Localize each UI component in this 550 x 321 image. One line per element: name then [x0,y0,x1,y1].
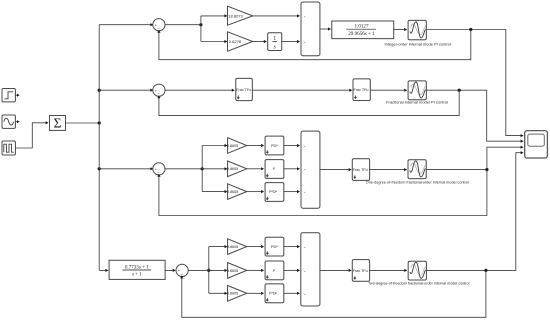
feedback wire row4 [182,270,486,317]
wire I3 to add3 [284,168,297,170]
gain block 0.8605 (row4 b) [227,263,247,279]
add block row1 [301,2,320,56]
svg-text:18.8073: 18.8073 [228,13,243,18]
fractional PID block row3 (P lambda D mu) [265,183,284,202]
wire PD4 to add4 [284,246,297,248]
svg-text:0.8605: 0.8605 [227,190,238,194]
sum junction circle S2 [153,84,165,96]
transfer function block (0.7733s+1)/(s+1) [109,260,165,279]
fractional transfer function block 4 (Frac TFu) [352,260,369,282]
svg-text:+: + [304,144,306,148]
wire integrator to add1 [282,41,298,43]
svg-text:−: − [157,26,160,31]
svg-text:0.8605: 0.8605 [227,292,238,296]
sum junction circle S3 [153,163,165,175]
wire PID3 to add3 [284,191,297,193]
wire to gain4a [209,246,225,248]
svg-text:+: + [304,167,306,171]
wire sum block to bus [66,122,100,124]
wire to gain4c [209,292,225,294]
gain block 0.6276 [228,32,253,51]
svg-text:Frac TFu: Frac TFu [353,168,368,172]
svg-text:+: + [304,14,306,18]
wire PID4 to add4 [284,292,297,294]
wire fracTF4 to display4 [370,269,405,271]
svg-text:+: + [304,292,306,296]
wire TF1 to display1 [394,29,405,31]
svg-text:Frac TFu: Frac TFu [353,269,368,273]
svg-text:29.9656s + 1: 29.9656s + 1 [348,31,375,37]
wire display2 to scope [426,90,521,141]
add block row3 [301,131,320,208]
wire pulse generator to sum block [15,123,45,148]
wire gain4c to PID block [247,292,262,294]
fractional PD block row4 (PDu) [265,237,284,256]
wire TF4 to sum4 [165,269,173,271]
wire gain3c to PID block [247,191,262,193]
wire add1 to TF1 [320,28,328,30]
svg-text:0.8605: 0.8605 [227,167,238,171]
wire gain4a to PD block [247,246,262,248]
gain block 18.8073 [228,6,253,25]
node row4 output [484,269,487,272]
wire to gain1 [201,15,225,17]
wire add4 to fracTF4 [320,269,349,271]
wire display3 to scope [426,147,521,169]
wire branch vertical row1 [200,16,202,42]
junction bus/row3 [98,167,101,170]
wire bus to sum3 [99,168,152,170]
node row2 output [458,89,461,92]
wire sum1 to branch node [165,24,201,26]
wire bus to sum1 [99,24,152,26]
fractional transfer function block 2b (Frac TFu) [353,79,370,101]
svg-text:Frac TFu: Frac TFu [354,88,369,92]
feedback wire row1 [159,30,471,60]
svg-text:Integer-order internal mode PI: Integer-order internal mode PI control [384,41,451,46]
wire add3 to fracTF3 [320,169,349,171]
pulse generator source block [2,141,15,155]
signal display block row4 [408,261,426,280]
svg-text:−: − [157,170,160,175]
gain block 0.8605 (row3 b) [227,161,247,177]
signal display block row1 [408,20,426,39]
svg-text:Frac TFu: Frac TFu [236,88,251,92]
fractional PID block row4 (P lambda D mu) [265,284,284,303]
fractional transfer function block 2a (Frac TFu) [236,78,253,100]
svg-text:0.8605: 0.8605 [227,245,238,249]
node row1 branch [199,23,202,26]
svg-text:s + 1: s + 1 [132,272,142,278]
svg-text:+: + [304,190,306,194]
wire I4 to add4 [284,269,297,271]
sum junction circle S4 [176,264,188,276]
wire display1 to scope (via right side) [426,30,521,136]
junction bus/sigma [98,121,101,124]
fractional integrator block row3 (I lambda) [265,160,284,179]
svg-text:−: − [157,91,160,96]
fractional transfer function block 3 (Frac TFu) [352,159,369,181]
add block row4 [301,233,320,306]
signal display block row2 [408,81,426,100]
svg-text:0.7733s + 1: 0.7733s + 1 [125,264,149,270]
svg-text:One-degree-of-freedom fraction: One-degree-of-freedom fractional-order i… [366,181,469,185]
node row3 output [485,168,488,171]
svg-text:Σ: Σ [54,116,62,131]
svg-text:−: − [181,271,184,276]
node row3 branch [201,167,204,170]
junction bus/row2 [98,89,101,92]
wire bus to sum2 [99,89,152,91]
svg-text:+: + [304,269,306,273]
transfer function block 1.0127/(29.9656s+1) [332,21,394,39]
wire sum4 to branch node [188,269,209,271]
svg-text:+: + [304,40,306,44]
wire sum3 to branch node [165,168,202,170]
signal display block row3 [408,160,426,179]
wire gain1 to add1 [253,15,298,17]
wire gain3b to I block [247,168,262,170]
fractional integrator block row4 (I lambda) [265,261,284,280]
wire to gain3b [202,168,225,170]
wire to gain2 [201,41,225,43]
sum junction circle S1 [153,19,165,31]
feedback wire row3 [159,170,487,216]
wire to gain4b [209,269,225,271]
wire fracTF2a to fracTF2b [252,89,349,91]
wire branch vertical row4 [208,247,210,294]
svg-text:Two-degree-of-freedom fraction: Two-degree-of-freedom fractional-order i… [368,282,470,286]
gain block 0.8605 (row3 c) [227,184,247,200]
main vertical bus wire [98,25,100,271]
gain block 0.8605 (row4 c) [227,286,247,302]
wire fracTF2b to display2 [370,89,404,91]
svg-text:1.0127: 1.0127 [354,24,368,30]
wire display4 to scope [426,153,520,271]
sine wave source block [2,115,20,128]
step source block [2,89,20,102]
feedback wire row2 [159,90,459,115]
wire sum2 to fractional TF 2a [165,89,232,91]
wire branch vertical row3 [201,146,203,192]
wire to gain3c [202,191,225,193]
svg-text:0.8605: 0.8605 [227,144,238,148]
wire to gain3a [202,145,225,147]
sum block U_sum (sigma) [50,116,66,131]
svg-text:1: 1 [273,36,276,42]
svg-text:0.8605: 0.8605 [227,269,238,273]
scope block [525,131,548,158]
node row4 branch [207,269,210,272]
wire gain2 to integrator [253,41,264,43]
wire gain4b to I block [247,269,262,271]
fractional PD block row3 (PDu) [265,136,284,155]
integrator block 1/s [268,33,282,51]
node row1 output [469,28,472,31]
svg-text:+: + [304,245,306,249]
wire fracTF3 to display3 [370,169,405,171]
wire gain3a to PD block [247,145,262,147]
gain block 0.8605 (row3 a) [227,138,247,154]
wire PD3 to add3 [284,145,297,147]
svg-text:0.6276: 0.6276 [229,39,242,44]
gain block 0.8605 (row4 a) [227,239,247,255]
svg-text:Fractional internal model PI c: Fractional internal model PI control [386,100,448,105]
wire bus to TF4 [99,269,105,271]
